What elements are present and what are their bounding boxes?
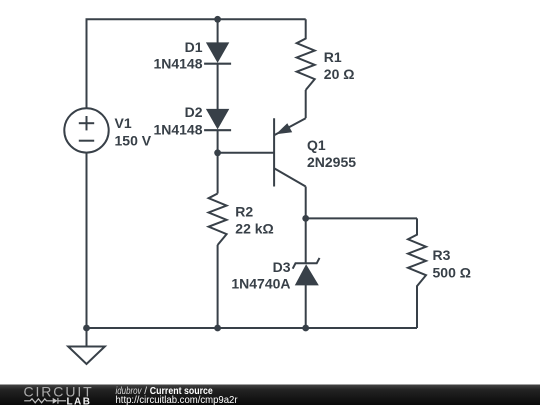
node: top rail junction <box>214 16 221 23</box>
node: collector junction <box>302 215 309 222</box>
zener diode D3 <box>293 258 320 286</box>
svg-text:1N4148: 1N4148 <box>153 121 202 137</box>
wire: bottom rail <box>87 327 418 329</box>
logo resistor-diode glyph <box>24 398 66 404</box>
node: bottom rail at D3 <box>302 325 309 332</box>
wire: V1 bottom down to bottom rail <box>86 153 88 329</box>
wire: R1 bottom to Q1 emitter <box>305 90 307 118</box>
label D2 value <box>153 104 202 137</box>
svg-text:20 Ω: 20 Ω <box>324 66 355 82</box>
svg-text:http://circuitlab.com/cmp9a2r: http://circuitlab.com/cmp9a2r <box>116 395 239 405</box>
resistor R1 <box>297 19 315 90</box>
node: base junction <box>214 149 221 156</box>
wire: R2 bottom lead to bottom rail <box>217 245 219 328</box>
svg-text:R2: R2 <box>235 203 253 219</box>
node: bottom rail at V1 <box>83 325 90 332</box>
svg-text:D2: D2 <box>185 104 203 120</box>
wire: V1 top up and along top rail to R1 <box>87 19 306 108</box>
svg-text:150 V: 150 V <box>115 132 152 148</box>
svg-text:1N4740A: 1N4740A <box>231 275 290 291</box>
wire: collector node down to D3 cathode <box>305 218 307 263</box>
footer bar <box>0 385 540 405</box>
wire: D1 anode lead from top rail <box>217 19 219 42</box>
svg-text:1N4148: 1N4148 <box>153 55 202 71</box>
transistor Q1 <box>274 118 306 218</box>
wire: collector node to R3 <box>306 217 417 219</box>
svg-text:V1: V1 <box>115 115 132 131</box>
voltage source V1 <box>64 108 108 152</box>
svg-text:R1: R1 <box>324 49 342 65</box>
svg-text:2N2955: 2N2955 <box>307 154 356 170</box>
wire: D1 cathode to D2 anode <box>217 64 219 110</box>
ground <box>68 347 105 365</box>
svg-text:D1: D1 <box>185 39 203 55</box>
wire: D2 cathode through base node to R2 top <box>217 130 219 194</box>
resistor R3 <box>408 218 426 328</box>
svg-text:500 Ω: 500 Ω <box>433 264 471 280</box>
svg-text:LAB: LAB <box>67 397 92 405</box>
svg-text:22 kΩ: 22 kΩ <box>235 221 273 237</box>
label Q1 value <box>307 137 356 170</box>
resistor R2 <box>209 194 227 245</box>
label R2 value <box>235 203 273 236</box>
wire: ground stem <box>86 328 88 347</box>
diode D1 <box>204 42 231 63</box>
label R1 value <box>324 49 355 82</box>
label D1 value <box>153 39 202 72</box>
wire: D3 anode down to bottom rail <box>305 285 307 328</box>
diode D2 <box>204 109 231 130</box>
label D3 value <box>231 259 290 291</box>
node: bottom rail at R2 <box>214 325 221 332</box>
svg-text:R3: R3 <box>433 247 451 263</box>
label R3 value <box>433 247 471 280</box>
svg-text:D3: D3 <box>273 259 291 275</box>
wire: base wire to Q1 <box>218 152 275 154</box>
svg-text:Q1: Q1 <box>307 137 326 153</box>
label V1 value <box>115 115 152 148</box>
